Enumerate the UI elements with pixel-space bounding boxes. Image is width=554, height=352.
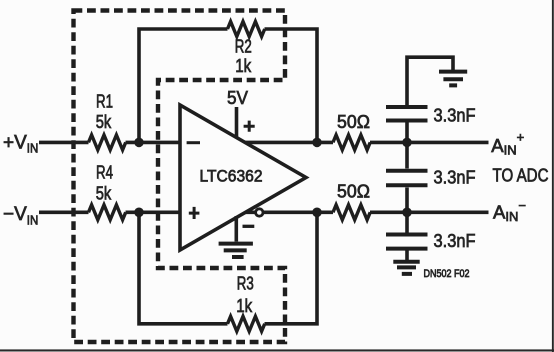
svg-text:3.3nF: 3.3nF <box>434 230 476 251</box>
wire R4 to non-inverting input node <box>126 211 181 215</box>
wire R3 feedback right leg <box>265 212 318 323</box>
node junction lower output <box>312 208 322 218</box>
ground upper right <box>439 72 467 86</box>
svg-text:50Ω: 50Ω <box>337 181 370 202</box>
wire +VIN input to R1 <box>39 141 89 145</box>
svg-text:1k: 1k <box>236 296 253 316</box>
pin marker - supply <box>243 225 255 228</box>
node junction inverting input <box>134 138 144 148</box>
wire lower output to AIN- <box>370 211 489 215</box>
ground stub op-amp <box>235 216 239 242</box>
resistor R2 <box>228 22 265 37</box>
pin marker - input <box>187 141 200 144</box>
wire R3 feedback left leg <box>139 212 228 323</box>
wire upper cap to ground <box>407 57 453 142</box>
node junction lower cap rail <box>402 208 412 218</box>
resistor R4 <box>89 205 126 220</box>
wire R2 feedback right leg <box>265 29 318 142</box>
svg-text:R2: R2 <box>235 36 252 56</box>
wire R1 to inverting input node <box>126 141 181 145</box>
svg-text:5k: 5k <box>96 184 112 204</box>
resistor 50ohm lower <box>333 205 370 220</box>
capacitor C upper 3.3nF plates <box>386 107 428 121</box>
wire upper output to AIN+ <box>370 141 489 145</box>
supply 5V stub <box>235 107 239 137</box>
svg-text:5V: 5V <box>227 87 249 108</box>
svg-text:DN502 F02: DN502 F02 <box>424 268 470 280</box>
dashed feedback-network boundary <box>74 11 286 343</box>
svg-text:R4: R4 <box>96 163 113 183</box>
ground bottom right <box>393 262 419 274</box>
svg-text:LTC6362: LTC6362 <box>200 168 263 186</box>
wire R2 feedback left leg <box>139 29 228 142</box>
svg-text:TO ADC: TO ADC <box>493 165 549 186</box>
svg-text:1k: 1k <box>235 56 252 76</box>
wire -VIN input to R4 <box>39 211 89 215</box>
capacitor C middle 3.3nF vertical legs <box>405 142 409 212</box>
op-amp U1 LTC6362 triangle <box>180 105 306 250</box>
wire op-amp upper output <box>245 141 333 145</box>
resistor R1 <box>89 135 126 150</box>
svg-text:5k: 5k <box>96 112 112 132</box>
svg-text:3.3nF: 3.3nF <box>434 104 476 125</box>
border bottom <box>0 349 554 351</box>
output inversion circle <box>256 209 263 216</box>
capacitor C bottom 3.3nF leg <box>405 212 409 260</box>
capacitor C bottom 3.3nF plates <box>386 235 428 249</box>
resistor R3 <box>228 316 265 331</box>
node junction non-inverting input <box>134 208 144 218</box>
border right faint <box>552 0 554 352</box>
node junction upper output <box>312 138 322 148</box>
svg-text:50Ω: 50Ω <box>337 111 370 132</box>
wire op-amp lower output <box>245 211 333 215</box>
ground op-amp <box>219 244 253 257</box>
capacitor C middle 3.3nF plates <box>386 171 428 186</box>
svg-text:3.3nF: 3.3nF <box>434 167 476 188</box>
resistor 50ohm upper <box>333 135 370 150</box>
node junction upper cap rail <box>402 138 412 148</box>
pin marker + supply <box>244 121 255 132</box>
svg-text:R1: R1 <box>96 91 113 111</box>
pin marker + input <box>189 207 200 219</box>
svg-text:R3: R3 <box>237 273 254 293</box>
